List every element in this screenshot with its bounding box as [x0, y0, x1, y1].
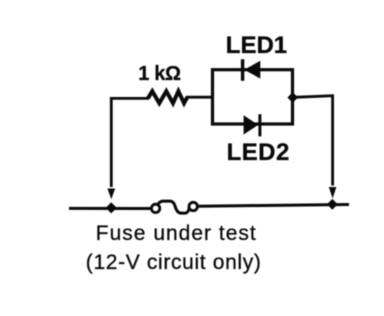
svg-text:(12-V circuit only): (12-V circuit only): [86, 251, 262, 274]
svg-text:LED2: LED2: [227, 139, 290, 166]
svg-text:1 kΩ: 1 kΩ: [138, 63, 181, 85]
svg-text:LED1: LED1: [226, 32, 287, 59]
svg-text:Fuse under test: Fuse under test: [96, 222, 257, 245]
